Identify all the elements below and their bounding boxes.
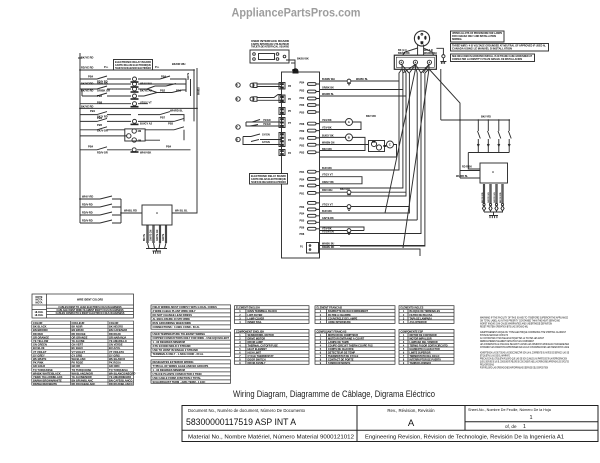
spec box 1 xyxy=(151,305,231,329)
svg-text:BK/YE RD: BK/YE RD xyxy=(81,56,94,60)
terminal screw L2 xyxy=(427,60,431,64)
svg-text:BN/WH BROWN/WHITE: BN/WH BROWN/WHITE xyxy=(33,378,62,382)
indicator A xyxy=(346,119,353,126)
svg-text:WH/V-BK: WH/V-BK xyxy=(140,151,151,155)
svg-text:WH/BU: WH/BU xyxy=(199,87,201,95)
relay slot group1 xyxy=(308,83,317,114)
component table FR xyxy=(315,330,395,365)
svg-text:TARJETA DE INTERFACIAL USUARIO: TARJETA DE INTERFACIAL USUARIO xyxy=(251,46,289,49)
svg-text:PB3: PB3 xyxy=(300,206,305,209)
svg-text:PK ROSA: PK ROSA xyxy=(109,361,121,365)
svg-text:INNER BAIL: INNER BAIL xyxy=(248,321,263,324)
connector P6 left xyxy=(279,95,285,103)
svg-text:BK/OR WH: BK/OR WH xyxy=(172,62,186,66)
svg-text:4M: 4M xyxy=(138,138,142,142)
wire board row 206 xyxy=(320,206,410,208)
wire lower bracket xyxy=(121,199,142,223)
indicator B xyxy=(346,134,353,141)
svg-text:GN VERT: GN VERT xyxy=(72,343,84,347)
circled sensor b5 xyxy=(236,83,240,87)
svg-text:PB1: PB1 xyxy=(176,89,182,93)
svg-text:MAIN TERMINAL BLOCK: MAIN TERMINAL BLOCK xyxy=(248,310,278,313)
svg-text:BN CAFE/MAR: BN CAFE/MAR xyxy=(109,328,127,332)
svg-text:PB2: PB2 xyxy=(300,145,305,148)
svg-text:WH WHITE: WH WHITE xyxy=(33,357,47,361)
svg-text:BU AZUL: BU AZUL xyxy=(109,346,121,350)
svg-text:ASA INTERIOR: ASA INTERIOR xyxy=(410,321,427,324)
svg-text:BK/YE/RD: BK/YE/RD xyxy=(81,82,94,86)
module pin 4 xyxy=(165,225,166,243)
svg-text:PB6: PB6 xyxy=(300,227,305,230)
svg-text:SEE INCLUDED IN GROUPED INSTAL: SEE INCLUDED IN GROUPED INSTALL IS IN TR… xyxy=(452,55,533,58)
svg-text:YE/GN: YE/GN xyxy=(263,119,271,122)
heater switch branch 1 xyxy=(477,120,480,153)
svg-text:Rev., Révision, Revisión: Rev., Révision, Revisión xyxy=(387,408,435,413)
wire row1 xyxy=(80,76,186,92)
connector P3 left xyxy=(279,133,285,147)
wire board row 192 xyxy=(320,191,407,193)
svg-text:PB2: PB2 xyxy=(160,89,166,93)
element table EN xyxy=(235,306,310,324)
svg-text:BU/V-BK: BU/V-BK xyxy=(322,210,332,213)
wire long diagonal A xyxy=(385,69,416,213)
circled sensor b7 xyxy=(236,125,240,129)
svg-text:OR ORANGE: OR ORANGE xyxy=(72,335,88,339)
svg-text:CABLAGE IDENT WIRE FILAMENT ID: CABLAGE IDENT WIRE FILAMENT IDENT COLS I… xyxy=(56,309,124,312)
wire lower switch row1 xyxy=(80,196,121,199)
selector module box xyxy=(142,205,172,225)
legend header table xyxy=(32,294,134,318)
heater switch branch 4 xyxy=(508,120,511,153)
buzzer pair BZ xyxy=(369,141,385,152)
wire board row 137.4 loop B xyxy=(320,137,366,150)
svg-text:1: 1 xyxy=(523,424,526,430)
svg-text:Engineering Revision, Révision: Engineering Revision, Révision de Techno… xyxy=(365,434,564,440)
power cord xyxy=(402,45,434,57)
svg-text:ELEMENT FRANCAIS: ELEMENT FRANCAIS xyxy=(317,307,343,310)
svg-text:USED TEMPERATURE TOLERANT WIRI: USED TEMPERATURE TOLERANT WIRING xyxy=(153,332,206,336)
svg-text:58300000117519 ASP INT A: 58300000117519 ASP INT A xyxy=(186,417,296,427)
label text electronic relay board (top box) xyxy=(115,61,151,70)
wire row9 xyxy=(80,127,184,140)
svg-text:B: B xyxy=(348,136,350,140)
svg-text:BU/V-BK: BU/V-BK xyxy=(322,167,332,170)
notes text right top xyxy=(452,32,547,61)
relay slot group2 xyxy=(308,122,317,153)
wire heater left input 2 xyxy=(460,177,480,179)
notes box 3 xyxy=(451,54,535,62)
svg-text:YE/BK YELLOW/BLACK: YE/BK YELLOW/BLACK xyxy=(33,375,63,379)
svg-text:WH/RD BL: WH/RD BL xyxy=(456,175,468,178)
svg-text:A: A xyxy=(408,418,415,429)
svg-text:VT VIOLETA: VT VIOLETA xyxy=(109,350,124,354)
wire row2 xyxy=(80,79,186,84)
wire board row 122 loop A xyxy=(320,122,362,130)
svg-text:1: 1 xyxy=(529,415,532,421)
wire board row 230 xyxy=(320,230,365,232)
circled sensor b6 xyxy=(236,97,240,101)
svg-text:BK NEGRO: BK NEGRO xyxy=(109,325,123,329)
power plug face xyxy=(414,31,429,46)
svg-text:TQ TURQUOISE: TQ TURQUOISE xyxy=(33,368,53,372)
notes paragraphs bottom right xyxy=(480,317,569,370)
svg-text:PB6: PB6 xyxy=(300,104,305,107)
board tiny labels xyxy=(236,40,309,249)
svg-text:GN/YE GN: GN/YE GN xyxy=(157,229,159,241)
wire bundle drop 3 xyxy=(320,69,407,196)
svg-text:BK/YE RD: BK/YE RD xyxy=(81,89,94,93)
svg-text:WH BLANCO: WH BLANCO xyxy=(109,357,125,361)
svg-text:COUVERCLE DE LAMPE: COUVERCLE DE LAMPE xyxy=(328,317,358,320)
svg-text:PB3: PB3 xyxy=(97,116,103,120)
wire neutral drop xyxy=(440,69,442,120)
svg-text:AL ENCLOSURE 40 STD WIRE: AL ENCLOSURE 40 STD WIRE xyxy=(153,317,191,321)
svg-text:THREE WIRE / 4 IS VOLTAGE GROU: THREE WIRE / 4 IS VOLTAGE GROUNDED AT NE… xyxy=(452,45,547,48)
svg-text:BK/YE: BK/YE xyxy=(144,234,146,241)
svg-text:BK/BU BK: BK/BU BK xyxy=(297,58,309,61)
svg-text:Sheet-No., Nombre De Feuille,: Sheet-No., Nombre De Feuille, Número De … xyxy=(468,408,552,412)
svg-text:GN/YE-BK: GN/YE-BK xyxy=(322,217,334,220)
svg-text:GD ORO: GD ORO xyxy=(109,364,120,368)
svg-text:BU BLUE: BU BLUE xyxy=(33,346,45,350)
ground symbol xyxy=(153,251,162,254)
heater switch branch 3 xyxy=(498,120,501,153)
svg-text:YE AMAR/NEGRO: YE AMAR/NEGRO xyxy=(109,375,131,379)
wire bundle drop 1 xyxy=(320,65,403,171)
wire long diagonal B xyxy=(403,69,429,248)
wire bundle drop 7 xyxy=(340,69,429,246)
circled sensor b8 xyxy=(236,137,240,141)
svg-text:WH BL BL: WH BL BL xyxy=(175,209,188,213)
wire row3 xyxy=(80,84,176,93)
ladder tiny labels xyxy=(81,56,188,223)
svg-text:BN BRUN/BLANC: BN BRUN/BLANC xyxy=(72,378,94,382)
svg-text:1 - 90 DEGREES MINIMUM: 1 - 90 DEGREES MINIMUM xyxy=(153,368,185,372)
svg-text:BK/RD BK: BK/RD BK xyxy=(398,52,410,55)
wire row7 xyxy=(80,112,184,122)
svg-text:PB3: PB3 xyxy=(300,90,305,93)
svg-text:PB2: PB2 xyxy=(300,97,305,100)
svg-text:YE/V-BK: YE/V-BK xyxy=(322,119,332,122)
svg-text:OR/BK OR: OR/BK OR xyxy=(97,89,110,93)
coil value blobs xyxy=(131,81,139,83)
svg-text:OR NARANJA: OR NARANJA xyxy=(109,335,126,339)
svg-text:DESIGNATES EXTERIOR WIRING: DESIGNATES EXTERIOR WIRING xyxy=(153,360,194,364)
heater pin labels vertical xyxy=(482,192,502,203)
svg-text:BK/Y-RD: BK/Y-RD xyxy=(481,116,491,119)
svg-text:GN/YE: GN/YE xyxy=(163,233,165,241)
heater switch branch 2 xyxy=(487,120,490,153)
svg-text:P-L: P-L xyxy=(155,65,160,69)
svg-text:HI-OHL: HI-OHL xyxy=(35,314,44,317)
coil circle row5 xyxy=(133,102,137,106)
svg-text:WH/RD BL: WH/RD BL xyxy=(322,93,334,96)
svg-text:WH/RD BL: WH/RD BL xyxy=(170,109,183,113)
svg-text:COLOR: COLOR xyxy=(33,321,42,325)
svg-text:TARJETA DE RELEVADOR ELECTRONI: TARJETA DE RELEVADOR ELECTRONICO xyxy=(251,181,286,184)
plug pin pair row99 xyxy=(253,97,257,102)
wire P1 row 246 xyxy=(319,246,425,257)
svg-text:ANSE INTERIEURE: ANSE INTERIEURE xyxy=(328,321,351,324)
wire board row 144.5 buzzer xyxy=(320,145,397,158)
svg-text:PB7: PB7 xyxy=(160,116,166,120)
coil circle row8 xyxy=(133,119,137,123)
component table EN xyxy=(235,330,310,365)
wire row11 xyxy=(80,147,191,150)
element table ES xyxy=(399,306,454,324)
svg-text:BZ: BZ xyxy=(372,141,376,144)
connector P2 left xyxy=(279,150,285,156)
svg-text:RD/V RD: RD/V RD xyxy=(97,82,108,86)
wire left rail xyxy=(79,56,81,223)
svg-text:Document No., Numéro de docume: Document No., Numéro de document, Número… xyxy=(188,408,306,413)
svg-text:YE YELLOW: YE YELLOW xyxy=(33,339,49,343)
wire lower switch row2 xyxy=(80,204,121,207)
slot tick wires xyxy=(316,84,320,229)
wire UI board to relay board xyxy=(286,60,295,72)
svg-text:GD OR: GD OR xyxy=(72,364,81,368)
svg-text:USE TO JOINT IN SINGLE 2 STRAN: USE TO JOINT IN SINGLE 2 STRAND xyxy=(153,348,198,352)
svg-text:OR/BK BK: OR/BK BK xyxy=(322,87,334,90)
svg-text:PB6: PB6 xyxy=(300,138,305,141)
svg-text:DO NOT CHANGE LEAD DRESS: DO NOT CHANGE LEAD DRESS xyxy=(153,313,193,317)
thermostat switch t2 xyxy=(243,134,261,145)
heater ground bar xyxy=(484,212,503,216)
svg-text:WH/Y-RD: WH/Y-RD xyxy=(82,195,93,199)
module pin 1 xyxy=(147,225,148,243)
notes box 2 xyxy=(451,44,549,52)
svg-text:PB5: PB5 xyxy=(168,122,174,126)
svg-text:DRUM ASSBLY: DRUM ASSBLY xyxy=(248,362,266,365)
heater pin 2 xyxy=(489,184,492,212)
component table ES xyxy=(399,330,454,365)
svg-text:BK/V-OR: BK/V-OR xyxy=(97,129,108,133)
svg-text:BARRETTE DE RACCORDEMENT: BARRETTE DE RACCORDEMENT xyxy=(328,310,368,313)
wire board row 89.5 xyxy=(320,89,403,91)
wire pin to board row85 xyxy=(257,84,282,87)
svg-text:OR ORANGE: OR ORANGE xyxy=(33,335,49,339)
svg-text:GN GREEN: GN GREEN xyxy=(33,343,47,347)
svg-text:YE AMARILLO: YE AMARILLO xyxy=(109,339,127,343)
svg-text:NOTAMMENT LES OPERATIONS APPRO: NOTAMMENT LES OPERATIONS APPROPRIEES DES… xyxy=(480,346,569,349)
wire board row 170 label xyxy=(320,177,363,184)
neon lamp row 206 xyxy=(347,205,351,209)
plug pin pair row85 xyxy=(253,83,257,88)
user interface board box U1 xyxy=(250,50,289,63)
wire bundle drop 5 xyxy=(416,69,417,220)
wire right drop xyxy=(191,70,195,121)
svg-text:BK/YE RD: BK/YE RD xyxy=(81,105,94,109)
chassis ground lead xyxy=(436,48,443,61)
svg-text:BK/Y-RD: BK/Y-RD xyxy=(366,115,376,118)
svg-text:PB9: PB9 xyxy=(300,130,305,133)
spec box 2 xyxy=(151,332,231,356)
svg-text:PB4: PB4 xyxy=(300,82,305,85)
wire crisscross under block xyxy=(401,64,429,73)
coil circle row1 xyxy=(133,77,137,81)
svg-text:PB2: PB2 xyxy=(300,185,305,188)
svg-text:PB8: PB8 xyxy=(300,233,305,236)
svg-text:WH/BU BL: WH/BU BL xyxy=(356,78,368,81)
terminal screw L1 xyxy=(399,60,403,64)
svg-text:BU BLEU: BU BLEU xyxy=(72,346,84,350)
svg-text:RD ROJO: RD ROJO xyxy=(109,332,121,336)
module pin 3 xyxy=(159,225,160,243)
node bus junction xyxy=(193,69,195,71)
svg-text:BZ: BZ xyxy=(383,145,387,148)
svg-text:PB5: PB5 xyxy=(300,220,305,223)
svg-text:TERMINALS ONLY - 1 AWG COND -: TERMINALS ONLY - 1 AWG COND - 60 AL xyxy=(153,352,204,356)
svg-text:TQ TURQUESA: TQ TURQUESA xyxy=(109,368,128,372)
svg-text:WH/RD WH: WH/RD WH xyxy=(424,52,437,55)
svg-text:BLOQUE DE TERMINALES: BLOQUE DE TERMINALES xyxy=(410,310,441,313)
wire heater left input 1 xyxy=(460,170,480,172)
svg-text:USE CABLE FORM JUNCTION 2 TOTA: USE CABLE FORM JUNCTION 2 TOTAL xyxy=(153,376,202,380)
svg-text:RESET PROTEIN OPERATION BITS L: RESET PROTEIN OPERATION BITS LIKE GROUND… xyxy=(480,326,529,329)
wire board row 96 xyxy=(320,95,407,97)
svg-text:PB4: PB4 xyxy=(300,213,305,216)
coil circle row3 xyxy=(133,87,137,91)
svg-text:CONSULTER LA IDENTITY UTILIZE: CONSULTER LA IDENTITY UTILIZE ANNUAL DE … xyxy=(452,58,522,61)
svg-text:BU/GY A2: BU/GY A2 xyxy=(140,122,153,126)
wire row4 xyxy=(82,84,186,97)
svg-text:BU/GY BK: BU/GY BK xyxy=(322,134,334,137)
wire board row 213 xyxy=(320,212,353,214)
neon lamp row 230 xyxy=(347,229,351,233)
svg-text:WH/V WH: WH/V WH xyxy=(140,82,152,86)
heater ground symbol xyxy=(489,216,498,219)
svg-text:WH BLANC: WH BLANC xyxy=(72,357,86,361)
svg-text:RD ROJO/BLANCO: RD ROJO/BLANCO xyxy=(109,382,133,386)
svg-text:1 - 90 DEGREES MINIMUM: 1 - 90 DEGREES MINIMUM xyxy=(153,340,185,344)
svg-text:RD RED: RD RED xyxy=(33,332,43,336)
svg-text:3 PH ECONO MOLD 2 STRAND: 3 PH ECONO MOLD 2 STRAND xyxy=(153,344,191,348)
svg-text:VT VIOLET: VT VIOLET xyxy=(72,350,86,354)
wire row8 xyxy=(80,118,184,121)
relay slot group3 xyxy=(308,170,317,194)
coil circle row4 xyxy=(133,94,137,98)
svg-text:PB4: PB4 xyxy=(161,75,167,79)
svg-text:BK/V-RD: BK/V-RD xyxy=(340,188,350,191)
svg-text:GY GRIS: GY GRIS xyxy=(72,353,83,357)
svg-text:RD ROUGE: RD ROUGE xyxy=(72,332,86,336)
svg-text:PB4: PB4 xyxy=(166,145,172,149)
wire bundle drop 4 xyxy=(320,65,416,214)
svg-text:RD/YE RD: RD/YE RD xyxy=(81,66,94,70)
wire lower switch row4 xyxy=(80,220,121,223)
label text electronic relay board (left box) xyxy=(251,175,286,184)
svg-text:GY/GN: GY/GN xyxy=(262,134,270,137)
notes box 1 xyxy=(451,31,505,42)
relay slot group4 xyxy=(308,202,317,231)
svg-text:COULEUR: COULEUR xyxy=(72,321,85,325)
svg-text:GD GOLD: GD GOLD xyxy=(33,364,45,368)
heater module box xyxy=(480,163,508,183)
ladder pin labels vertical xyxy=(144,72,201,241)
thermostat switch t1 xyxy=(246,120,261,127)
chassis ground symbol xyxy=(440,62,446,64)
svg-text:CABLES IDENT TO LEAD ELECTRICS: CABLES IDENT TO LEAD ELECTRICS COLS IN H… xyxy=(58,306,122,309)
relay board U2 outline xyxy=(282,72,320,258)
svg-text:WH/BN GN: WH/BN GN xyxy=(322,142,335,145)
svg-text:VT/GY VT: VT/GY VT xyxy=(140,101,152,105)
svg-text:VT VIOLET: VT VIOLET xyxy=(33,350,47,354)
wire board row 81 xyxy=(320,80,400,82)
svg-text:BK BLACK: BK BLACK xyxy=(33,325,47,329)
svg-text:YE/GN: YE/GN xyxy=(263,123,271,126)
svg-text:CONNECTIONS : 3 AWG COND - 60: CONNECTIONS : 3 AWG COND - 60 AL xyxy=(153,325,201,329)
indicator C xyxy=(387,141,394,148)
neon lamp row 192 xyxy=(347,190,351,194)
svg-text:RD/V-RD: RD/V-RD xyxy=(82,219,93,223)
svg-text:WH/BK WHITE/BLACK: WH/BK WHITE/BLACK xyxy=(33,371,61,375)
terminal block TB1 xyxy=(394,55,436,69)
svg-text:GY/GN: GY/GN xyxy=(262,141,270,144)
svg-text:WH BLANCO/NEGRO: WH BLANCO/NEGRO xyxy=(109,371,135,375)
svg-text:COLOR: COLOR xyxy=(109,321,118,325)
svg-text:ELEMENT ENGLISH: ELEMENT ENGLISH xyxy=(236,307,260,310)
svg-text:RD ROUGE/BLANC: RD ROUGE/BLANC xyxy=(72,382,96,386)
svg-text:POR PELIGRO LAS OPERACIONES AP: POR PELIGRO LAS OPERACIONES APROPRIADAS … xyxy=(480,367,548,370)
wire diagonal to heater feed xyxy=(429,69,460,178)
svg-text:4M: 4M xyxy=(138,129,142,133)
power tiny labels xyxy=(322,49,491,249)
svg-text:TAPA DE LAMPARA: TAPA DE LAMPARA xyxy=(410,317,433,320)
svg-text:YE/GN GN: YE/GN GN xyxy=(322,231,334,234)
svg-text:TYPICAL OF WIRES GAGE AND NO G: TYPICAL OF WIRES GAGE AND NO GROUPS xyxy=(153,364,209,368)
svg-text:CABLES CONDUCTO E IDENT ELECTR: CABLES CONDUCTO E IDENT ELECTRICO COLS I… xyxy=(56,312,125,315)
terminal screw N xyxy=(413,60,417,64)
svg-text:COPPER CONDUCTORS ONLY FOR WIR: COPPER CONDUCTORS ONLY FOR WIRE - USE EQ… xyxy=(153,336,230,340)
svg-text:GY GRIS: GY GRIS xyxy=(109,353,120,357)
svg-text:SCHARFGEIST TERM - AWG TERM -: SCHARFGEIST TERM - AWG TERM - 1 EXC xyxy=(153,380,206,384)
svg-text:PK ROSE: PK ROSE xyxy=(72,361,84,365)
wire heater top bus xyxy=(441,119,509,121)
svg-text:NOTA: NOTA xyxy=(36,301,43,304)
svg-text:RD/V-RD: RD/V-RD xyxy=(82,203,93,207)
svg-text:BK/V-BK: BK/V-BK xyxy=(322,148,332,151)
wire t2 to board xyxy=(260,140,282,145)
svg-text:BN BRUN: BN BRUN xyxy=(72,328,84,332)
spec box 3 xyxy=(151,360,231,383)
svg-text:TARJETA DE RELEVADOR ELECTRONI: TARJETA DE RELEVADOR ELECTRONICO xyxy=(115,67,151,70)
label box electronic relay board (left) xyxy=(250,174,288,185)
svg-text:YE JAUNE/NOIR: YE JAUNE/NOIR xyxy=(72,375,92,379)
svg-text:GY GREY: GY GREY xyxy=(33,353,45,357)
title block table xyxy=(182,406,598,442)
heater pin 1 xyxy=(482,184,485,212)
wire bundle drop 6 xyxy=(320,65,430,234)
svg-text:RD/V-WH: RD/V-WH xyxy=(322,189,333,192)
wire rail to module xyxy=(172,68,197,213)
svg-text:PK PINK: PK PINK xyxy=(33,361,44,365)
svg-text:PB5: PB5 xyxy=(97,123,103,127)
svg-text:WH BLANC/NOIR: WH BLANC/NOIR xyxy=(72,371,93,375)
svg-text:GN/YE GN: GN/YE GN xyxy=(151,229,153,241)
wire top bus xyxy=(80,69,194,71)
svg-text:BU/WH WH: BU/WH WH xyxy=(322,78,335,81)
svg-text:OR/GY BK: OR/GY BK xyxy=(322,181,334,184)
svg-text:TQ TURQUOISE: TQ TURQUOISE xyxy=(72,368,92,372)
element table FR xyxy=(315,306,395,324)
svg-text:NORMAL: NORMAL xyxy=(452,38,463,41)
svg-text:LAMP COVER: LAMP COVER xyxy=(248,317,265,320)
svg-text:of, de: of, de xyxy=(505,424,517,429)
coil circle row2 xyxy=(133,82,137,86)
svg-text:RD/V-RD: RD/V-RD xyxy=(82,211,93,215)
wire color table xyxy=(32,321,134,385)
svg-text:PB1: PB1 xyxy=(90,109,96,113)
